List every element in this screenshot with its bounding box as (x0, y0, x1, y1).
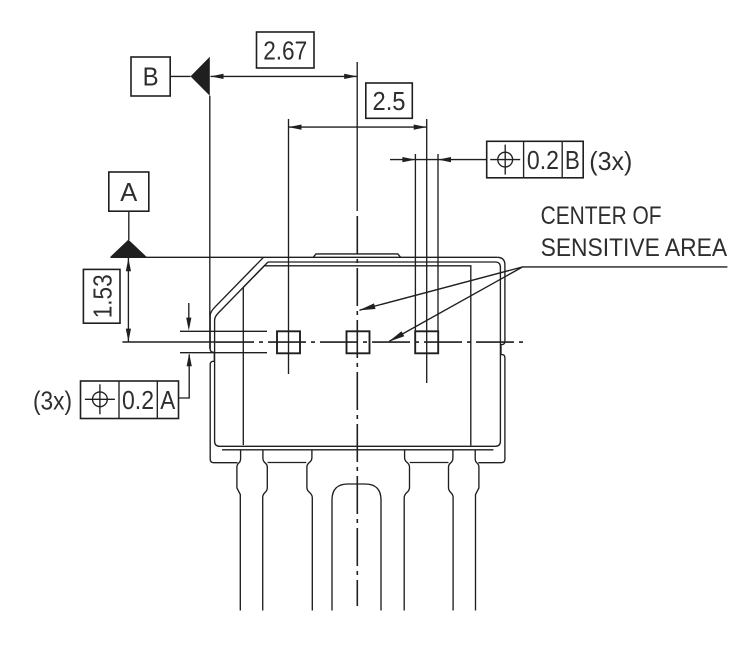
centerline horizontal solid part (122, 341, 216, 343)
leader from frame 0.2A (179, 355, 190, 399)
svg-text:0.2: 0.2 (527, 145, 559, 175)
svg-text:A: A (120, 177, 138, 207)
svg-text:B: B (565, 145, 580, 175)
dimension 2.5 label box (366, 83, 413, 118)
leader arrow to center line (389, 267, 522, 342)
dimension 1.53 label box (83, 269, 120, 323)
dimension 2.5 line (289, 126, 427, 128)
upper small arrow 0.2A (188, 303, 190, 327)
sensitive area square S1 (277, 331, 300, 353)
sensitive area square S3 (415, 331, 438, 353)
dimension 2.67 label box (257, 32, 315, 68)
extension line squares top edge (180, 330, 267, 332)
datum A filled triangle (110, 240, 147, 258)
dimension 1.53 line (127, 258, 129, 342)
package top tab (313, 254, 400, 257)
extension line through square S3 (426, 119, 428, 383)
dimension 2.67 left arrow (211, 74, 224, 79)
svg-text:1.53: 1.53 (87, 274, 117, 318)
svg-text:(3x): (3x) (33, 385, 72, 415)
datum B extension line (209, 96, 211, 349)
lead 2 step line (268, 462, 307, 464)
extension line through square S1 (288, 119, 290, 374)
centerline horizontal dash-dot (216, 341, 523, 343)
lead 5 right edge (475, 450, 479, 611)
package body bottom edge (222, 449, 494, 451)
lead 4 step line (410, 462, 449, 464)
svg-text:2.5: 2.5 (373, 86, 406, 116)
lead 4 left edge (404, 450, 409, 611)
extension line S3 right edge (437, 154, 439, 331)
datum B box (131, 57, 170, 96)
svg-text:SENSITIVE AREA: SENSITIVE AREA (541, 235, 728, 262)
lead 2 right edge (307, 450, 312, 611)
leader arrow to middle square (360, 267, 523, 310)
datum A connector line (128, 211, 130, 240)
svg-text:CENTER OF: CENTER OF (541, 203, 662, 230)
dimension 2.5 right arrow (414, 125, 427, 130)
datum B filled triangle (191, 57, 210, 96)
dimension 1.53 top arrow (126, 258, 131, 271)
tolerance 0.2B dimension line (390, 159, 487, 161)
sensitive area square S2 (347, 331, 370, 353)
centerline vertical dash-dot (356, 216, 358, 606)
lead 4 / lead 5 shared edge (449, 450, 454, 611)
dimension 1.53 bottom arrow (126, 329, 131, 342)
tolerance 0.2B right arrow (438, 157, 451, 162)
package body inner outline (215, 262, 501, 446)
lead 1 left edge (237, 450, 241, 611)
lead 1 / lead 2 shared edge (263, 450, 268, 611)
middle lead (332, 484, 381, 611)
extension line squares bottom edge (180, 352, 267, 354)
dimension 2.67 right arrow (344, 74, 357, 79)
feature control frame 0.2 A (81, 381, 179, 419)
svg-text:2.67: 2.67 (263, 36, 307, 66)
centerline vertical solid part (356, 62, 358, 211)
leader 0.2A up arrow (187, 353, 192, 366)
package body outer outline (210, 257, 263, 462)
dimension 2.67 line (211, 75, 358, 77)
datum A line merged with body top edge (111, 256, 498, 258)
tolerance 0.2B left arrow (402, 157, 415, 162)
svg-text:(3x): (3x) (589, 146, 632, 176)
leader horizontal line under text (523, 266, 728, 268)
datum A box (109, 172, 149, 211)
svg-text:0.2: 0.2 (122, 385, 154, 415)
svg-text:A: A (160, 385, 176, 415)
datum B connector line (170, 75, 190, 77)
feature control frame 0.2 B (487, 141, 584, 178)
package inner platform outline (243, 266, 470, 446)
dimension 2.5 left arrow (289, 125, 302, 130)
extension line S3 left edge (414, 154, 416, 331)
svg-text:B: B (143, 62, 159, 92)
